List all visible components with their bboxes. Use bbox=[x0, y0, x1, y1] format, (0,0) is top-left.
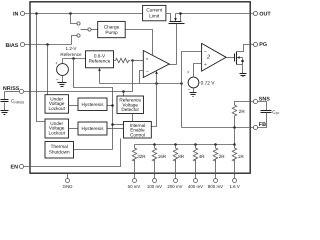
node IEC branch bbox=[111, 123, 114, 126]
comparator 2 bbox=[202, 43, 227, 71]
resistor 2R ladder bbox=[208, 145, 225, 189]
svg-text:Detector: Detector bbox=[121, 107, 139, 112]
pin EN bbox=[11, 164, 24, 170]
svg-text:+: + bbox=[146, 57, 149, 62]
svg-text:Current: Current bbox=[146, 7, 162, 12]
hysteresis box 2 bbox=[78, 122, 107, 135]
resistor 4R bbox=[188, 145, 205, 189]
svg-text:Control: Control bbox=[130, 133, 145, 138]
capacitor C_FF external bbox=[258, 102, 280, 128]
under voltage lockout box 2 bbox=[45, 119, 69, 138]
svg-text:Shutdown: Shutdown bbox=[49, 149, 70, 154]
wire NR/SS net bbox=[24, 61, 133, 92]
svg-text:BIAS: BIAS bbox=[6, 43, 19, 49]
wire EN to IEC bbox=[24, 139, 121, 167]
wire OUT rail bbox=[176, 13, 254, 15]
pin GND bbox=[63, 174, 73, 189]
svg-text:Limit: Limit bbox=[149, 13, 160, 18]
resistor 16R bbox=[147, 145, 167, 189]
wire ref tap down to enable chain bbox=[74, 59, 113, 150]
under voltage lockout box 1 bbox=[45, 95, 69, 114]
svg-text:Hysteresis: Hysteresis bbox=[82, 126, 105, 131]
wire UVLO1 to hysteresis1 bbox=[69, 105, 79, 107]
svg-text:4R: 4R bbox=[199, 154, 206, 159]
wire UVLO2 to hysteresis2 bbox=[69, 128, 79, 130]
pin IN bbox=[13, 11, 25, 17]
svg-text:800 mV: 800 mV bbox=[208, 184, 223, 189]
resistor RC filter bbox=[114, 58, 131, 62]
svg-text:+: + bbox=[55, 60, 58, 65]
wire RVD tap down bbox=[123, 92, 125, 97]
chip border bbox=[30, 2, 250, 173]
resistor 32R bbox=[128, 145, 147, 189]
switch lever bbox=[81, 29, 89, 31]
svg-text:1R: 1R bbox=[238, 154, 245, 159]
svg-text:50 mV: 50 mV bbox=[128, 184, 141, 189]
wire IN to switch throw 1 bbox=[71, 14, 78, 24]
node bus junctions bbox=[153, 143, 156, 146]
wire to amp plus bbox=[133, 60, 144, 62]
svg-text:FF: FF bbox=[276, 112, 280, 116]
wire BIAS to switch throw 2 bbox=[72, 36, 78, 45]
op-amp error amplifier bbox=[143, 51, 169, 78]
wire IN rail bbox=[25, 13, 143, 15]
ground 0.72V bbox=[190, 93, 197, 97]
node BIAS-UVLO junction bbox=[46, 43, 49, 46]
wire amp minus net bbox=[100, 83, 182, 85]
wire gate lead to error amp output bbox=[176, 24, 178, 65]
arrow enable into amp bottom bbox=[155, 71, 158, 84]
thermal shutdown box bbox=[45, 142, 74, 159]
svg-text:16R: 16R bbox=[158, 154, 167, 159]
wire amp minus stub bbox=[140, 71, 144, 84]
wire 1.2V ref to 0.8V ref bbox=[63, 58, 86, 60]
node FET-OUT junction bbox=[179, 12, 182, 15]
svg-text:2R: 2R bbox=[239, 109, 246, 114]
ground PG FET bbox=[240, 74, 247, 77]
svg-text:OUT: OUT bbox=[259, 12, 271, 18]
node IN-switch junction bbox=[69, 12, 72, 15]
arrow into 0.8V ref bottom bbox=[98, 68, 101, 84]
wire BIAS to UVLO1 bbox=[47, 45, 49, 95]
svg-text:IN: IN bbox=[13, 12, 18, 18]
svg-text:8R: 8R bbox=[178, 154, 185, 159]
reference voltage detector box bbox=[117, 96, 144, 114]
node soft-start bbox=[131, 59, 134, 62]
svg-text:Reference: Reference bbox=[60, 52, 82, 57]
wire enable down to IEC bbox=[152, 84, 157, 127]
node RVD tap bbox=[122, 90, 125, 93]
svg-text:200 mV: 200 mV bbox=[167, 184, 182, 189]
wire ladder bus bbox=[135, 144, 235, 146]
PG FET Q2 bbox=[235, 45, 254, 74]
1.2-V reference source bbox=[55, 59, 68, 84]
wire comp out to PG FET gate bbox=[227, 57, 235, 59]
pin OUT bbox=[253, 11, 271, 17]
pin BIAS bbox=[6, 42, 25, 48]
charge pump box bbox=[98, 21, 126, 37]
svg-text:+: + bbox=[187, 69, 190, 74]
wire hysteresis2 to IEC bbox=[108, 128, 124, 130]
wire current limit to FET bbox=[166, 14, 171, 22]
svg-text:Charge: Charge bbox=[104, 25, 120, 30]
svg-text:Reference: Reference bbox=[89, 59, 111, 64]
svg-text:1.2-V: 1.2-V bbox=[66, 46, 78, 51]
svg-text:400 mV: 400 mV bbox=[188, 184, 203, 189]
wire thermal shutdown to IEC bbox=[74, 149, 113, 151]
resistor 2R internal bbox=[232, 105, 236, 117]
0.8-V reference box bbox=[86, 51, 114, 68]
node ref tap bbox=[72, 57, 75, 60]
wire IN to UVLO2 bbox=[37, 14, 46, 122]
svg-text:32R: 32R bbox=[137, 154, 146, 159]
switch throw contact 1 bbox=[77, 22, 80, 25]
wire 2R to FB node bbox=[234, 117, 236, 128]
ground C_NR/SS bbox=[1, 111, 9, 115]
resistor 1R bbox=[229, 145, 244, 189]
pin SNS bbox=[253, 97, 270, 104]
svg-text:Lockout: Lockout bbox=[48, 131, 65, 136]
hysteresis box 1 bbox=[78, 98, 107, 111]
svg-text:GND: GND bbox=[63, 184, 73, 189]
wire into IEC left bbox=[113, 124, 124, 126]
svg-text:100 mV: 100 mV bbox=[147, 184, 162, 189]
wire hysteresis1 out bbox=[108, 105, 113, 107]
wire FB to ladder bus bbox=[234, 128, 236, 145]
node hysteresis1 junction bbox=[111, 104, 114, 107]
wire comp minus from FB bbox=[182, 52, 202, 128]
wire RVD to IEC bbox=[132, 114, 134, 122]
svg-text:Pump: Pump bbox=[105, 30, 118, 35]
pin NR/SS bbox=[3, 86, 24, 94]
node enable arrow junction bbox=[155, 82, 158, 85]
0.72 V source bbox=[187, 64, 215, 94]
capacitor C_NR/SS external bbox=[1, 92, 25, 111]
wire charge pump to amp supply bbox=[126, 30, 153, 56]
svg-text:PG: PG bbox=[259, 42, 267, 48]
svg-text:1.6 V: 1.6 V bbox=[229, 184, 239, 189]
pin PG bbox=[253, 42, 267, 48]
node IN-UVLO junction bbox=[35, 12, 38, 15]
wire pole to charge pump bbox=[92, 29, 98, 31]
svg-text:NR/SS: NR/SS bbox=[14, 101, 24, 105]
svg-text:EN: EN bbox=[11, 164, 19, 170]
current limit box bbox=[143, 5, 166, 20]
wire error amp output stub bbox=[169, 64, 177, 66]
node FB bbox=[233, 126, 236, 129]
wire BIAS bbox=[25, 44, 72, 46]
ground 1.2V ref bbox=[58, 83, 67, 87]
resistor 8R bbox=[167, 145, 184, 189]
svg-text:−: − bbox=[146, 69, 149, 75]
svg-text:Hysteresis: Hysteresis bbox=[82, 102, 105, 107]
svg-text:+: + bbox=[204, 63, 207, 68]
pin FB bbox=[253, 122, 266, 130]
pass FET Q1 bbox=[169, 14, 185, 24]
switch pole contact bbox=[88, 28, 91, 31]
svg-text:2R: 2R bbox=[219, 154, 226, 159]
switch throw contact 2 bbox=[77, 34, 80, 37]
wire FB line bbox=[182, 127, 254, 129]
svg-text:NR/SS: NR/SS bbox=[3, 86, 20, 92]
svg-text:0.72 V: 0.72 V bbox=[201, 80, 216, 86]
wire SNS to 2R bbox=[235, 102, 254, 105]
internal enable control box bbox=[124, 122, 152, 139]
svg-text:Lockout: Lockout bbox=[48, 106, 65, 111]
node FB junction bbox=[180, 82, 183, 85]
